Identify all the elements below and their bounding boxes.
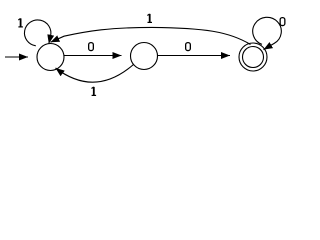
self loop on q0: [24, 20, 50, 46]
label 0 on q2 self loop: [280, 18, 285, 26]
label 1 on q0 self loop: [18, 18, 23, 27]
edge q2 -> q0 top curve: [51, 27, 251, 44]
state q0 (left circle): [37, 44, 64, 71]
edge q0 -> q1: [64, 55, 122, 57]
label 0 on edge q0->q1: [89, 43, 94, 51]
label 1 on edge q2->q0: [147, 14, 152, 23]
label 1 on edge q1->q0: [92, 87, 97, 96]
start arrow into q0: [5, 56, 28, 58]
state q2 accepting (inner circle): [243, 47, 264, 68]
label 0 on edge q1->q2: [186, 43, 191, 51]
self loop on q2: [253, 17, 282, 49]
state q2 accepting (outer circle): [239, 43, 267, 71]
edge q1 -> q0 bottom curve: [56, 65, 134, 83]
state q1 (middle circle): [131, 43, 158, 70]
edge q1 -> q2: [158, 55, 231, 57]
